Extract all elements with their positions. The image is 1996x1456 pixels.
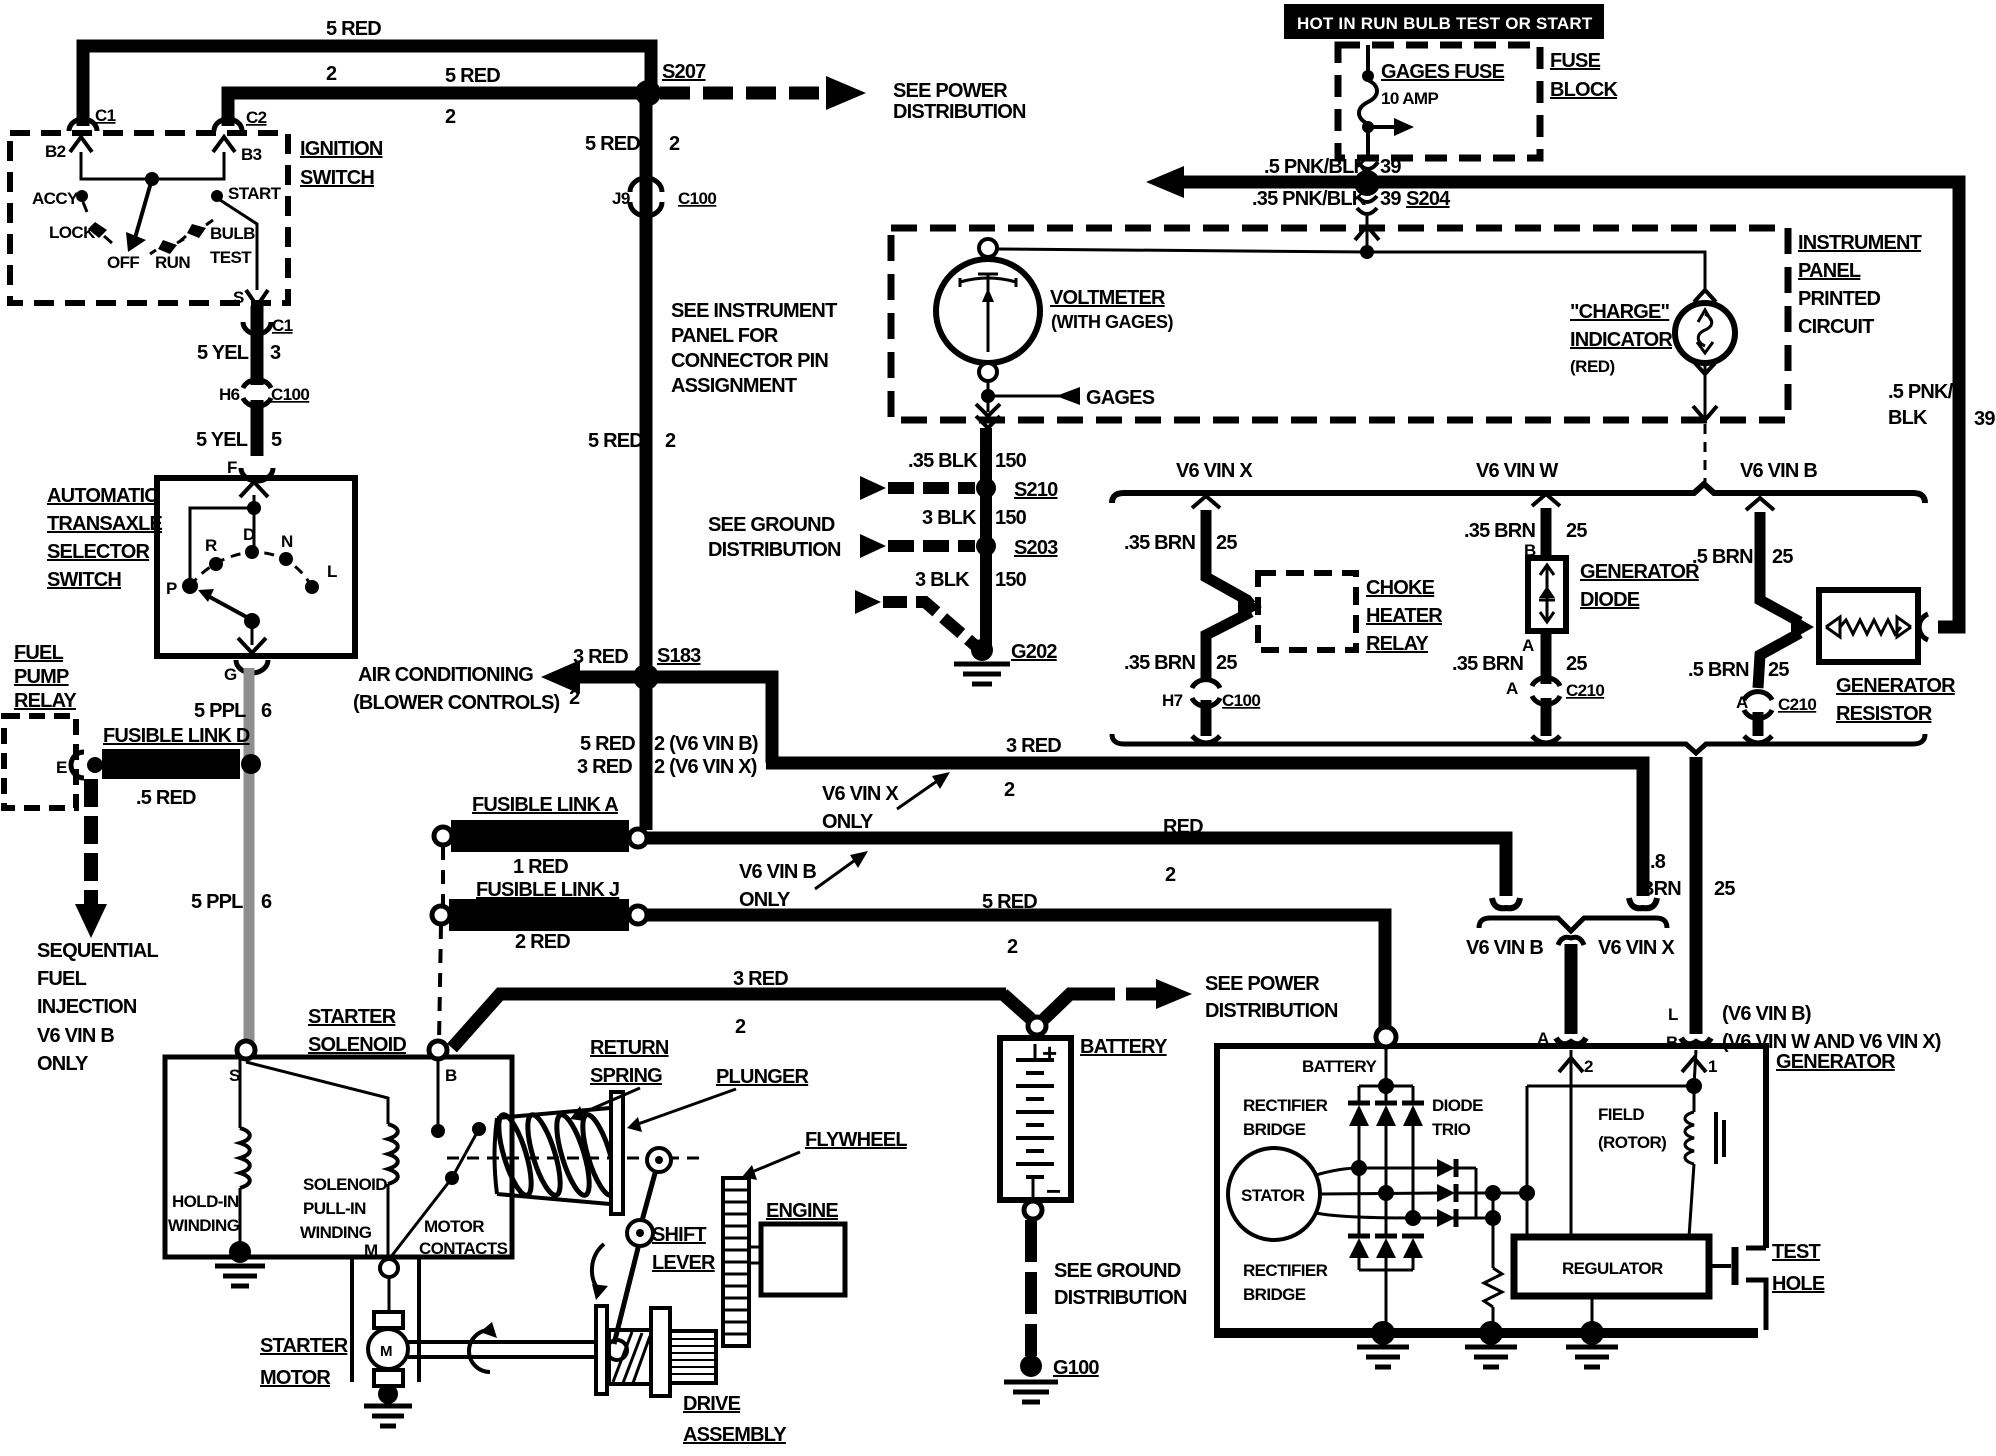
contact D — [245, 545, 259, 559]
splice S204 junction dot — [1354, 170, 1380, 196]
svg-text:2: 2 — [445, 106, 456, 128]
contact P — [182, 578, 198, 594]
test hole probe — [1709, 1264, 1731, 1268]
svg-text:GAGES: GAGES — [1086, 387, 1155, 409]
choke heater relay dashed box — [1258, 573, 1356, 650]
drive assembly left collar — [651, 1308, 670, 1396]
svg-text:BLK: BLK — [1888, 407, 1928, 429]
svg-text:REGULATOR: REGULATOR — [1562, 1259, 1663, 1278]
return spring coils — [492, 1112, 538, 1199]
svg-text:RELAY: RELAY — [14, 690, 77, 712]
svg-text:(ROTOR): (ROTOR) — [1598, 1133, 1666, 1152]
svg-text:C100: C100 — [1222, 691, 1260, 710]
ground symbol G100 — [1004, 1380, 1058, 1385]
svg-text:N: N — [281, 532, 293, 551]
ground symbol (hold-in) — [215, 1264, 265, 1269]
starter motor armature circle — [368, 1329, 408, 1369]
svg-text:V6 VIN W: V6 VIN W — [1476, 460, 1558, 482]
svg-text:B2: B2 — [45, 142, 66, 161]
svg-text:FUEL: FUEL — [14, 642, 64, 664]
node fuse bottom dot — [1362, 121, 1374, 133]
svg-text:1 RED: 1 RED — [513, 856, 568, 878]
svg-text:V6 VIN X: V6 VIN X — [822, 783, 899, 805]
battery negative terminal circle — [1024, 1201, 1042, 1219]
svg-text:RECTIFIER: RECTIFIER — [1243, 1096, 1328, 1115]
svg-text:CIRCUIT: CIRCUIT — [1798, 316, 1874, 338]
terminal M circle — [380, 1259, 398, 1277]
svg-text:HOLE: HOLE — [1772, 1273, 1825, 1295]
svg-text:FUSIBLE LINK D: FUSIBLE LINK D — [103, 725, 250, 747]
svg-text:SWITCH: SWITCH — [47, 569, 121, 591]
connector C1 (ignition switch) arc — [69, 119, 97, 131]
svg-text:INDICATOR: INDICATOR — [1570, 329, 1673, 351]
svg-text:5 RED: 5 RED — [982, 891, 1037, 913]
wire regulator to ground — [1591, 1296, 1594, 1333]
wire battery terminal to rectifier bridge — [1385, 1047, 1388, 1086]
ground dot (bridge) — [1371, 1321, 1395, 1345]
svg-text:BRIDGE: BRIDGE — [1243, 1120, 1306, 1139]
wire trio output to regulator branch — [1476, 1192, 1527, 1195]
wire M to motor — [388, 1277, 391, 1312]
svg-text:TRIO: TRIO — [1432, 1120, 1471, 1139]
svg-text:SEQUENTIAL: SEQUENTIAL — [37, 940, 158, 962]
wire .5 BRN lower to C210 — [1758, 633, 1800, 688]
lever motion curved arrow — [592, 1244, 604, 1292]
svg-text:SEE GROUND: SEE GROUND — [1054, 1260, 1181, 1282]
wire 5 YEL (C100 to F) — [251, 400, 264, 456]
splice S203 junction dot — [976, 536, 996, 556]
wire bridge top rail — [1359, 1085, 1413, 1088]
svg-text:G100: G100 — [1053, 1357, 1099, 1379]
wire dashed diagonal lead into G202 with arrow — [855, 590, 881, 614]
svg-text:FUSIBLE LINK A: FUSIBLE LINK A — [472, 794, 618, 816]
rectifier bridge bottom diode 2 — [1375, 1234, 1397, 1239]
wire ground net vertical (voltmeter to G202) — [980, 428, 992, 648]
wire .35 BRN diode to C210 — [1541, 631, 1552, 684]
generator box bottom edge — [1214, 1328, 1758, 1338]
brushes (slip rings) — [1714, 1112, 1718, 1164]
switch wiper to OFF — [135, 179, 152, 238]
svg-text:GENERATOR: GENERATOR — [1580, 561, 1700, 583]
svg-text:S183: S183 — [657, 645, 701, 667]
bracket top (engine harness) — [1112, 484, 1925, 503]
svg-text:.5 PNK/: .5 PNK/ — [1888, 381, 1954, 403]
ground dot (regulator) — [1580, 1321, 1604, 1345]
wire internal to D contact — [253, 495, 256, 552]
connector curl bottom of 3 RED rail — [1629, 898, 1657, 908]
wire B to fixed contact — [437, 1059, 440, 1128]
svg-text:2: 2 — [1165, 864, 1176, 886]
connector J9 C100 — [630, 178, 662, 192]
ground symbol (motor) — [364, 1404, 412, 1409]
connector below S204 — [1357, 196, 1377, 202]
charge indicator bulb circle — [1675, 303, 1735, 363]
svg-text:BRIDGE: BRIDGE — [1243, 1285, 1306, 1304]
svg-text:FUEL: FUEL — [37, 968, 87, 990]
wire field tap to regulator vertical — [1527, 1085, 1694, 1088]
svg-text:ENGINE: ENGINE — [766, 1200, 838, 1222]
svg-text:OFF: OFF — [107, 253, 139, 272]
svg-text:5 PPL: 5 PPL — [194, 700, 246, 722]
svg-text:DIODE: DIODE — [1432, 1096, 1483, 1115]
voltmeter bottom terminal circle — [979, 363, 997, 381]
starter motor frame — [350, 1257, 354, 1382]
svg-text:CHOKE: CHOKE — [1366, 577, 1435, 599]
terminal S circle — [237, 1041, 255, 1059]
resistor (regulator bias) zigzag — [1484, 1268, 1502, 1307]
instrument panel printed circuit dashed box — [891, 228, 1788, 420]
svg-text:GENERATOR: GENERATOR — [1836, 675, 1956, 697]
svg-text:P: P — [166, 579, 177, 598]
contact fixed dot — [431, 1124, 445, 1138]
svg-text:S203: S203 — [1014, 537, 1058, 559]
svg-text:25: 25 — [1216, 532, 1237, 554]
contact START — [211, 190, 223, 202]
svg-text:RESISTOR: RESISTOR — [1836, 703, 1933, 725]
wire S diagonal to pull-in winding — [246, 1062, 388, 1124]
fuse element squiggle — [1359, 80, 1377, 124]
svg-text:DRIVE: DRIVE — [683, 1393, 741, 1415]
contact L — [305, 580, 319, 594]
svg-text:DISTRIBUTION: DISTRIBUTION — [708, 539, 841, 561]
svg-text:C210: C210 — [1778, 695, 1816, 714]
contact ACCY — [76, 190, 88, 202]
svg-text:ONLY: ONLY — [822, 811, 874, 833]
svg-text:.35 BRN: .35 BRN — [1124, 652, 1195, 674]
ground symbol G202 — [954, 662, 1010, 667]
svg-text:INSTRUMENT: INSTRUMENT — [1798, 232, 1922, 254]
bracket V6 VIN B / V6 VIN X join — [1479, 918, 1667, 931]
svg-text:L: L — [1668, 1005, 1678, 1024]
svg-text:TEST: TEST — [1772, 1241, 1820, 1263]
svg-text:STARTER: STARTER — [308, 1006, 397, 1028]
svg-text:150: 150 — [995, 507, 1027, 529]
connector H7 C100 — [1192, 680, 1220, 688]
wire voltmeter to gages tap — [987, 381, 990, 412]
svg-text:V6 VIN B: V6 VIN B — [1466, 937, 1543, 959]
engine connecting stub — [749, 1247, 761, 1263]
armature shaft — [408, 1340, 597, 1344]
svg-text:LOCK: LOCK — [49, 223, 96, 242]
svg-text:PULL-IN: PULL-IN — [303, 1199, 366, 1218]
svg-text:BULB: BULB — [210, 224, 255, 243]
generator resistor box — [1819, 590, 1918, 662]
svg-text:FLYWHEEL: FLYWHEEL — [805, 1129, 907, 1151]
svg-text:V6 VIN X: V6 VIN X — [1598, 937, 1675, 959]
fusible link J bar — [449, 899, 629, 931]
wire H7 to bottom bracket — [1201, 700, 1212, 736]
terminal A curl (generator) — [1556, 1038, 1586, 1044]
svg-text:S: S — [233, 288, 244, 307]
svg-text:DISTRIBUTION: DISTRIBUTION — [1054, 1287, 1187, 1309]
svg-text:TEST: TEST — [210, 248, 252, 267]
svg-text:"CHARGE": "CHARGE" — [1570, 301, 1670, 323]
svg-text:3 RED: 3 RED — [1006, 735, 1061, 757]
svg-text:5 RED: 5 RED — [585, 133, 640, 155]
svg-text:.5 RED: .5 RED — [136, 787, 196, 809]
svg-text:ONLY: ONLY — [739, 889, 791, 911]
node bottom tap dot — [1485, 1210, 1501, 1226]
wire 3 RED battery feed diagonal from solenoid B — [452, 994, 1006, 1048]
svg-text:150: 150 — [995, 569, 1027, 591]
svg-text:B: B — [1666, 1033, 1678, 1052]
wire internal L-branch to P contact — [190, 508, 254, 583]
node gages tap dot — [981, 389, 995, 403]
regulator box — [1514, 1237, 1709, 1296]
svg-text:25: 25 — [1768, 659, 1789, 681]
svg-text:2: 2 — [669, 133, 680, 155]
ground symbol (resistor) — [1465, 1345, 1517, 1350]
wire dashed A to B terminals — [1580, 1045, 1682, 1048]
wire dashed battery to G100 — [1025, 1220, 1037, 1356]
svg-text:C1: C1 — [95, 106, 116, 125]
connector right of resistor — [1919, 614, 1928, 640]
wire bottom row tap — [1413, 1217, 1493, 1220]
contact BULB TEST — [187, 224, 206, 238]
connector curl below join — [1558, 937, 1584, 945]
connector C2 (ignition switch) arc — [214, 119, 242, 131]
arrow to power distribution — [826, 76, 866, 110]
terminal B3 arrow — [213, 137, 235, 152]
wire 3 RED rail (S183 branch to generator A side) — [766, 763, 1643, 896]
svg-text:J9: J9 — [612, 189, 630, 208]
shift lever pivot plate — [596, 1306, 607, 1394]
terminal circle left of link A — [434, 827, 452, 845]
terminal B/L curl (generator) — [1681, 1038, 1711, 1044]
svg-text:MOTOR: MOTOR — [260, 1367, 331, 1389]
svg-text:FUSE: FUSE — [1550, 50, 1601, 72]
svg-text:FUSIBLE LINK J: FUSIBLE LINK J — [476, 879, 619, 901]
svg-text:CONNECTOR PIN: CONNECTOR PIN — [671, 350, 828, 372]
svg-text:39: 39 — [1380, 156, 1401, 178]
terminal F arrow — [241, 468, 273, 481]
svg-text:2 (V6 VIN B): 2 (V6 VIN B) — [654, 733, 758, 755]
node junction dot on 5 PPL line — [241, 754, 261, 774]
svg-text:V6 VIN B: V6 VIN B — [1740, 460, 1817, 482]
svg-text:.35 PNK/BLK: .35 PNK/BLK — [1252, 188, 1367, 210]
generator diode internal symbol — [1540, 565, 1554, 575]
stator phase lead 2 — [1320, 1193, 1437, 1194]
svg-text:S: S — [229, 1066, 240, 1085]
node field tap dot — [1686, 1078, 1702, 1094]
wire pull-in winding to M — [387, 1184, 390, 1258]
svg-text:RELAY: RELAY — [1366, 633, 1429, 655]
svg-text:C2: C2 — [246, 108, 267, 127]
svg-text:.5 BRN: .5 BRN — [1692, 546, 1753, 568]
node phase 2 dot — [1378, 1185, 1394, 1201]
dashed plunger centerline — [447, 1157, 706, 1160]
arrow out of instrument panel bottom — [976, 404, 1000, 416]
wire .35 BRN generator diode upper (VIN W) — [1541, 508, 1552, 556]
svg-text:2: 2 — [735, 1016, 746, 1038]
node bridge top dot — [1378, 1078, 1394, 1094]
contact R — [209, 557, 223, 571]
wire dashed lead into S210 with arrow — [860, 476, 886, 500]
svg-text:START: START — [228, 184, 282, 203]
flywheel ring gear — [723, 1178, 749, 1346]
starter solenoid box — [165, 1057, 512, 1257]
bridge bottom rail to ground — [1359, 1269, 1413, 1272]
generator diode box — [1528, 558, 1566, 631]
svg-text:BATTERY: BATTERY — [1302, 1057, 1377, 1076]
svg-text:DISTRIBUTION: DISTRIBUTION — [893, 101, 1026, 123]
wire dashed lead into S203 with arrow — [860, 534, 886, 558]
wire S to hold-in winding — [239, 1059, 242, 1128]
wire fuse to S204 — [1366, 127, 1370, 160]
wire 5 RED feed from C2 to S207 — [228, 93, 646, 126]
svg-text:SPRING: SPRING — [590, 1065, 662, 1087]
svg-text:+: + — [1042, 1038, 1057, 1068]
wire dip into battery positive — [1003, 994, 1031, 1019]
terminal B2 arrow — [70, 137, 92, 152]
svg-text:SOLENOID: SOLENOID — [303, 1175, 387, 1194]
splice S210 junction dot — [976, 478, 996, 498]
svg-text:HOT IN RUN BULB TEST OR START: HOT IN RUN BULB TEST OR START — [1297, 14, 1593, 33]
wire .5 PNK/BLK to generator resistor (right and down) — [1378, 182, 1959, 627]
svg-text:.35 BLK: .35 BLK — [908, 450, 978, 472]
svg-text:ASSIGNMENT: ASSIGNMENT — [671, 375, 797, 397]
svg-text:LEVER: LEVER — [652, 1252, 716, 1274]
fusible link A bar — [451, 820, 629, 852]
generator box right edge lower segment with test hole gap — [1746, 1246, 1766, 1251]
wire printed circuit bus voltmeter to charge indicator — [997, 249, 1705, 290]
automatic transaxle selector switch box — [157, 478, 355, 656]
svg-text:B3: B3 — [241, 145, 262, 164]
svg-text:RED: RED — [1163, 816, 1203, 838]
svg-text:GENERATOR: GENERATOR — [1776, 1051, 1896, 1073]
svg-text:H7: H7 — [1162, 691, 1183, 710]
svg-text:WINDING: WINDING — [168, 1216, 240, 1235]
dashed selector arc P-R-D-N-L — [190, 552, 312, 587]
wire dashed charge indicator to V6 VIN B bracket — [1704, 424, 1707, 487]
svg-text:DISTRIBUTION: DISTRIBUTION — [1205, 1000, 1338, 1022]
wire 5 PPL gray (G to fusible link D junction) — [244, 668, 255, 1046]
svg-text:F: F — [227, 458, 237, 477]
engine box — [761, 1224, 845, 1295]
svg-text:PANEL: PANEL — [1798, 260, 1861, 282]
contact RUN — [158, 240, 177, 254]
svg-text:V6 VIN X: V6 VIN X — [1176, 460, 1253, 482]
svg-text:25: 25 — [1772, 546, 1793, 568]
svg-text:A: A — [1506, 679, 1518, 698]
svg-text:25: 25 — [1566, 653, 1587, 675]
svg-text:2: 2 — [665, 430, 676, 452]
wire charge indicator to panel bottom — [1704, 363, 1707, 418]
rectifier bridge top diode 1 — [1358, 1086, 1361, 1103]
svg-text:FIELD: FIELD — [1598, 1105, 1644, 1124]
svg-text:5 RED: 5 RED — [580, 733, 635, 755]
svg-text:STARTER: STARTER — [260, 1335, 349, 1357]
contact moving dot — [472, 1122, 486, 1136]
voltmeter scale and needle — [960, 278, 1016, 287]
splice S207 junction dot — [635, 80, 661, 106]
wire join to generator A terminal — [1565, 944, 1578, 1034]
svg-text:PUMP: PUMP — [14, 666, 69, 688]
svg-text:(BLOWER CONTROLS): (BLOWER CONTROLS) — [353, 692, 560, 714]
svg-text:2: 2 — [1004, 779, 1015, 801]
svg-text:.35 BRN: .35 BRN — [1452, 653, 1523, 675]
switch wiper START to S terminal — [220, 200, 257, 290]
svg-text:SEE GROUND: SEE GROUND — [708, 514, 835, 536]
wire lever to G exit — [251, 621, 254, 645]
wire moving contact to M — [390, 1178, 452, 1258]
svg-text:PRINTED: PRINTED — [1798, 288, 1881, 310]
svg-text:C100: C100 — [271, 385, 309, 404]
wire gages tap with arrow — [988, 395, 1062, 398]
svg-text:ASSEMBLY: ASSEMBLY — [683, 1424, 787, 1446]
terminal circle right of link J — [629, 906, 647, 924]
arrow into generator resistor — [1791, 614, 1814, 640]
svg-text:(WITH GAGES): (WITH GAGES) — [1051, 312, 1173, 332]
svg-text:VOLTMETER: VOLTMETER — [1050, 287, 1166, 309]
node fuse top dot — [1362, 70, 1374, 82]
svg-text:5: 5 — [271, 429, 282, 451]
svg-text:SEE POWER: SEE POWER — [893, 80, 1008, 102]
fuel pump relay dashed box — [4, 716, 76, 808]
svg-text:M: M — [380, 1343, 393, 1360]
svg-text:3 BLK: 3 BLK — [915, 569, 970, 591]
arrow into instrument panel box — [1355, 226, 1379, 240]
rectifier bridge top diode 2 — [1385, 1086, 1388, 1103]
terminal B circle — [429, 1041, 447, 1059]
node phase 1 dot — [1351, 1160, 1367, 1176]
svg-text:GAGES FUSE: GAGES FUSE — [1381, 61, 1505, 83]
wire 5 RED central vertical (S183 to fusible link A) — [640, 682, 653, 830]
node internal junction — [247, 501, 261, 515]
battery box — [1000, 1038, 1071, 1200]
svg-text:L: L — [327, 562, 337, 581]
svg-text:D: D — [243, 525, 255, 544]
svg-text:C210: C210 — [1566, 681, 1604, 700]
svg-text:IGNITION: IGNITION — [300, 138, 383, 160]
wire dashed link A/J to starter solenoid B — [441, 846, 445, 906]
ground G100 dot — [1020, 1355, 1042, 1377]
diode trio diode 1 — [1437, 1159, 1455, 1177]
fuse block dashed box — [1338, 45, 1540, 158]
svg-text:5 YEL: 5 YEL — [197, 342, 249, 364]
stator phase lead 3 — [1316, 1213, 1437, 1218]
ground symbol (regulator) — [1566, 1345, 1618, 1350]
svg-text:PANEL FOR: PANEL FOR — [671, 325, 779, 347]
svg-text:2: 2 — [1584, 1057, 1593, 1076]
svg-text:ONLY: ONLY — [37, 1053, 89, 1075]
connector at fuse block exit — [1358, 162, 1378, 169]
svg-text:RUN: RUN — [155, 253, 190, 272]
battery positive terminal circle — [1028, 1017, 1046, 1035]
arrow into choke heater relay — [1238, 594, 1262, 620]
fusible link D bar — [102, 749, 240, 779]
svg-text:2: 2 — [1007, 936, 1018, 958]
svg-text:V6 VIN B: V6 VIN B — [37, 1025, 114, 1047]
svg-text:1: 1 — [1708, 1057, 1717, 1076]
wire 3 RED arrow to air conditioning — [576, 671, 640, 684]
svg-text:ACCY: ACCY — [32, 189, 79, 208]
wire B2-B3 internal bus — [81, 152, 224, 179]
svg-text:DIODE: DIODE — [1580, 589, 1640, 611]
arrow out of box at G — [238, 638, 266, 653]
svg-text:(RED): (RED) — [1570, 357, 1615, 376]
svg-text:25: 25 — [1216, 652, 1237, 674]
node phase 3 dot — [1405, 1210, 1421, 1226]
voltmeter top terminal circle — [979, 239, 997, 257]
generator BATTERY terminal circle — [1376, 1027, 1396, 1047]
terminal S arrow — [246, 290, 268, 306]
svg-text:G202: G202 — [1011, 641, 1057, 663]
ground dot (resistor) — [1479, 1321, 1503, 1345]
svg-text:H6: H6 — [219, 385, 240, 404]
wire hold-in to ground — [239, 1188, 242, 1250]
svg-text:.8: .8 — [1650, 851, 1666, 873]
